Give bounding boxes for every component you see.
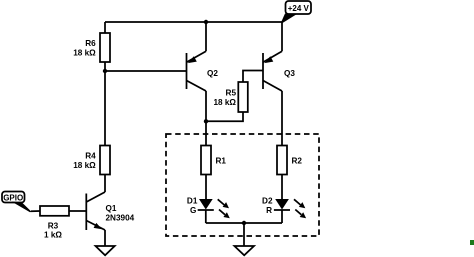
node junction R6/R4/Q2-base: [103, 69, 107, 73]
svg-text:1 kΩ: 1 kΩ: [44, 231, 62, 240]
svg-text:R4: R4: [85, 152, 96, 161]
wire Q3 collector down to R2: [281, 91, 283, 146]
wire Q3 emitter up to rail: [281, 22, 283, 51]
+24V flag box: [286, 1, 312, 14]
resistor R6: [73, 33, 110, 62]
wire R6 top lead: [104, 22, 106, 33]
wire R4 bottom lead to Q1 collector: [104, 175, 106, 193]
port GPIO: [2, 192, 32, 213]
GPIO flag box: [2, 192, 25, 203]
Q1 collector lead: [86, 192, 105, 202]
wire R1 to D1 anode: [205, 175, 207, 200]
D2 light arrow 1: [294, 199, 301, 205]
resistor R2 body: [277, 146, 287, 175]
Q3 emitter arrow (PNP): [264, 56, 273, 63]
green artifact mark: [470, 240, 474, 245]
Q1 base bar: [85, 194, 87, 231]
Q1 emitter lead: [86, 221, 105, 231]
svg-text:D2: D2: [262, 196, 273, 205]
wire Q2 collector down to R1: [205, 91, 207, 146]
wire D1 cathode down: [205, 210, 207, 223]
resistor R5 body: [238, 82, 248, 112]
wire R6 bottom lead: [104, 62, 106, 71]
resistor R5: [214, 82, 248, 112]
svg-text:R3: R3: [48, 221, 59, 230]
resistor R3: [40, 206, 69, 240]
svg-text:R5: R5: [226, 89, 237, 98]
D2 anode triangle: [275, 199, 289, 210]
Q3 collector lead: [263, 81, 282, 92]
svg-text:18 kΩ: 18 kΩ: [214, 98, 237, 107]
wire Q1 emitter to ground: [104, 230, 106, 246]
svg-text:GPIO: GPIO: [3, 194, 23, 203]
Q3 emitter lead: [263, 51, 282, 62]
wire Q2 emitter up to rail: [205, 22, 207, 51]
svg-text:18 kΩ: 18 kΩ: [73, 161, 96, 170]
D1 cathode bar: [198, 209, 214, 211]
svg-text:R1: R1: [216, 157, 227, 166]
resistor R1: [201, 146, 226, 175]
D2 light arrow 2: [295, 210, 301, 215]
transistor Q2: [187, 51, 219, 91]
svg-text:D1: D1: [187, 196, 198, 205]
svg-text:R6: R6: [85, 39, 96, 48]
resistor R4 body: [100, 146, 110, 175]
wire Q2 base: [105, 70, 187, 72]
ground (LED common): [234, 246, 254, 255]
transistor Q1 2N3904: [86, 192, 134, 230]
power +24 V: [281, 1, 311, 23]
LED D2 red: [262, 196, 306, 218]
wire LED common bottom: [206, 222, 282, 224]
Q2 emitter arrow (PNP): [188, 56, 197, 63]
D2 cathode bar: [274, 209, 290, 211]
Q1 emitter arrow (NPN): [94, 223, 102, 229]
LED D1 green: [187, 196, 230, 218]
svg-text:Q2: Q2: [207, 69, 218, 78]
+24V flag pointer: [281, 14, 297, 24]
svg-text:2N3904: 2N3904: [106, 213, 135, 222]
svg-text:R: R: [266, 206, 272, 215]
wire R2 to D2 anode: [281, 175, 283, 200]
Q2 emitter lead: [187, 51, 207, 62]
Q2 base bar: [186, 53, 188, 89]
D1 light arrow 1: [218, 199, 225, 205]
resistor R3 body: [40, 206, 69, 216]
wire R5 bottom to Q2 collector node: [206, 112, 243, 121]
node junction rail/Q2 emitter: [204, 20, 208, 24]
svg-text:Q1: Q1: [106, 204, 117, 213]
wire down to R4: [104, 71, 106, 146]
wire GPIO to R3: [31, 210, 40, 212]
wire R5 top to Q3 base: [243, 71, 263, 83]
resistor R2: [277, 146, 302, 175]
svg-text:18 kΩ: 18 kΩ: [73, 48, 96, 57]
wire +24V top rail: [105, 21, 282, 23]
Q2 collector lead: [187, 81, 207, 92]
resistor R1 body: [201, 146, 211, 175]
svg-text:Q3: Q3: [284, 69, 295, 78]
ground (Q1 emitter): [96, 246, 115, 255]
wire common node to ground: [243, 223, 245, 246]
node junction Q2 collector/R5: [204, 119, 208, 123]
svg-text:R2: R2: [292, 157, 303, 166]
resistor R6 body: [100, 33, 110, 62]
resistor R4: [73, 146, 110, 175]
svg-text:G: G: [190, 206, 196, 215]
wire R3 to Q1 base: [69, 210, 86, 212]
transistor Q3: [263, 51, 295, 91]
node junction LED common/ground: [242, 221, 246, 225]
dashed LED module box: [166, 134, 319, 236]
Q3 base bar: [262, 53, 264, 89]
D1 light arrow 2: [219, 210, 225, 215]
GPIO flag pointer: [12, 202, 32, 213]
wire D2 cathode down: [281, 210, 283, 223]
svg-text:+24 V: +24 V: [288, 4, 310, 13]
D1 anode triangle: [199, 199, 213, 210]
